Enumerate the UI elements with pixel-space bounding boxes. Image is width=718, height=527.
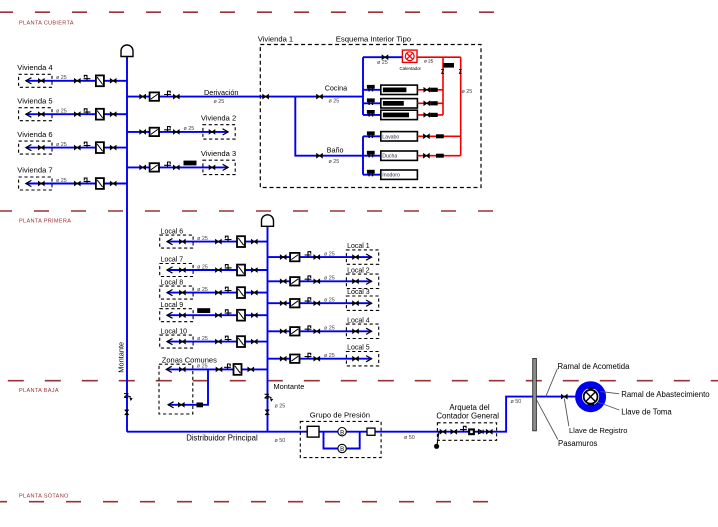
- svg-text:Vivienda 7: Vivienda 7: [17, 166, 52, 175]
- tap Ducha: [367, 151, 375, 158]
- arrow into Local 2: [366, 278, 372, 284]
- wire Local 9 branch: [167, 314, 268, 316]
- drain tap Local 7: [225, 265, 232, 270]
- svg-text:Local 4: Local 4: [347, 317, 370, 324]
- valve 2 Vivienda 4: [74, 79, 80, 83]
- water meter Vivienda 7: [96, 178, 104, 189]
- svg-text:PLANTA PRIMERA: PLANTA PRIMERA: [19, 219, 71, 225]
- valve 1 arqueta: [440, 430, 446, 434]
- svg-text:Zonas Comunes: Zonas Comunes: [162, 356, 217, 365]
- svg-text:Montante: Montante: [274, 382, 305, 391]
- svg-text:Local 1: Local 1: [347, 243, 370, 250]
- valve 1 Vivienda 5: [38, 112, 44, 116]
- drain tap Local 5: [305, 353, 312, 358]
- svg-text:Local 9: Local 9: [161, 302, 184, 309]
- valve 2 Local 4: [314, 329, 320, 333]
- drain tap arqueta: [460, 426, 467, 431]
- wire Local 10 branch: [167, 341, 268, 343]
- svg-text:ø 25: ø 25: [214, 99, 225, 105]
- dashed box Vivienda 4: [19, 74, 52, 87]
- wire distribuidor principal and acometida: [127, 397, 576, 432]
- arrow into Vivienda 5: [26, 111, 32, 117]
- wire zonas comunes loop: [168, 369, 208, 404]
- arrow into Local 5: [366, 356, 372, 362]
- union on hot riser bath: [459, 69, 462, 73]
- dashed box Local 4: [346, 324, 378, 338]
- svg-text:Pasamuros: Pasamuros: [558, 439, 598, 448]
- wire zonas comunes top: [166, 368, 267, 370]
- svg-text:Llave de Toma: Llave de Toma: [621, 407, 672, 416]
- kitchen fixture 1 name blob: [383, 88, 407, 93]
- water meter Local 5: [290, 355, 299, 363]
- dashed box Local 10: [160, 335, 193, 348]
- water meter Local 1: [290, 253, 299, 261]
- wire calentador feed: [363, 56, 402, 58]
- valve 2 Local 2: [314, 279, 320, 283]
- water meter Vivienda 5: [96, 109, 104, 120]
- svg-text:Ramal de Acometida: Ramal de Acometida: [558, 362, 631, 371]
- water meter Local 8: [237, 287, 245, 298]
- wire kitchen fixture 3 cold: [363, 114, 381, 116]
- svg-text:ø 25: ø 25: [56, 178, 67, 184]
- valve 3 Vivienda 6: [110, 146, 116, 150]
- wire kitchen fixture 2 hot: [417, 102, 443, 104]
- water meter derivacion: [150, 92, 159, 100]
- svg-text:ø 25: ø 25: [324, 353, 335, 359]
- svg-text:ø 25: ø 25: [197, 336, 208, 342]
- pump B top: [338, 428, 346, 437]
- svg-text:ø 25: ø 25: [324, 276, 335, 282]
- svg-text:Inodoro: Inodoro: [382, 173, 400, 179]
- zonas comunes group: [159, 356, 268, 415]
- wire Local 8 branch: [167, 292, 268, 294]
- kitchen fixture 2 box: [381, 99, 418, 108]
- valve Ducha hot: [424, 154, 430, 158]
- fitting Ducha hot: [436, 154, 444, 158]
- svg-text:PLANTA BAJA: PLANTA BAJA: [19, 388, 59, 394]
- llave de registro valve: [561, 395, 567, 399]
- arrow zonas comunes top: [166, 366, 172, 372]
- fixture box Inodoro: [381, 170, 418, 179]
- leader llave de toma: [598, 402, 620, 410]
- arrow into Vivienda 7: [26, 180, 32, 186]
- svg-text:ø 25: ø 25: [324, 251, 335, 257]
- wire Local 7 branch: [167, 269, 268, 271]
- arrow into Local 3: [366, 300, 372, 306]
- water meter Vivienda 4: [96, 75, 104, 86]
- dashed box Local 3: [346, 296, 378, 310]
- valve 2 Vivienda 2: [173, 130, 179, 134]
- label blob Local 9: [197, 308, 210, 313]
- arrow into Vivienda 6: [26, 145, 32, 151]
- valve 1 Local 7: [180, 268, 186, 272]
- dashed box Local 5: [346, 352, 378, 366]
- svg-text:Local 8: Local 8: [161, 279, 184, 286]
- dashed box Local 7: [160, 264, 193, 277]
- wire derivacion branch: [127, 96, 260, 98]
- riser 1 montante pipe: [126, 56, 128, 432]
- wire Local 1 branch: [268, 256, 372, 258]
- drain tap Local 3: [305, 298, 312, 303]
- dashed box Local 8: [160, 286, 193, 299]
- svg-text:ø 25: ø 25: [197, 287, 208, 293]
- valve kitchen fixture 1 hot: [424, 88, 430, 92]
- check valve with drain on riser 2: [265, 394, 274, 401]
- svg-text:ø 25: ø 25: [275, 404, 286, 410]
- fitting Lavabo hot: [436, 134, 444, 138]
- water meter Local 9: [237, 310, 245, 321]
- svg-text:ø 25: ø 25: [324, 298, 335, 304]
- wire kitchen fixture 1 cold: [363, 89, 381, 91]
- svg-text:ø 25: ø 25: [197, 364, 208, 370]
- valve kitchen fixture 2 hot: [424, 101, 430, 105]
- tap kitchen fixture 1: [367, 85, 375, 92]
- fixture box Ducha: [381, 151, 418, 160]
- dashed box arqueta: [437, 423, 496, 441]
- check valve with drain on riser 1: [124, 394, 133, 401]
- leader ramal de abastecimiento: [601, 392, 620, 394]
- wire bath feed: [295, 97, 363, 156]
- valve 1 Local 2: [280, 279, 286, 283]
- arrow into Local 4: [366, 328, 372, 334]
- valve 2 Local 8: [216, 291, 222, 295]
- valve 2 Vivienda 3: [173, 165, 179, 169]
- svg-text:Ducha: Ducha: [382, 154, 397, 160]
- wire pump bypass loop: [324, 432, 360, 449]
- wire Vivienda 3 branch: [127, 166, 228, 168]
- dashed box Local 6: [160, 235, 193, 248]
- drain tap Local 9: [225, 310, 232, 315]
- water meter Vivienda 2: [150, 128, 159, 136]
- leader pasamuros: [537, 400, 558, 439]
- valve kitchen fixture 3 hot: [424, 113, 430, 117]
- water meter Local 3: [290, 299, 299, 307]
- svg-text:ø 50: ø 50: [404, 435, 415, 441]
- dashed box Vivienda 3: [203, 160, 235, 174]
- svg-text:Esquema Interior Tipo: Esquema Interior Tipo: [336, 35, 411, 44]
- dashed box Vivienda 7: [19, 177, 52, 190]
- svg-text:ø 25: ø 25: [56, 109, 67, 115]
- svg-text:ø 25: ø 25: [324, 326, 335, 332]
- wire hot riser kitchen: [442, 57, 444, 115]
- valve bano: [317, 154, 323, 158]
- dashed box Vivienda 5: [19, 108, 52, 121]
- valve 2 Local 5: [314, 357, 320, 361]
- drain tap Local 10: [225, 336, 232, 341]
- water meter Local 7: [237, 265, 245, 276]
- svg-text:PLANTA SÓTANO: PLANTA SÓTANO: [19, 492, 69, 499]
- floor line PLANTA CUBIERTA: [0, 11, 511, 13]
- vent dome riser 1: [121, 45, 133, 57]
- arrow into Local 1: [366, 254, 372, 260]
- svg-text:ø 50: ø 50: [511, 399, 522, 405]
- valve 3 Local 8: [251, 291, 257, 295]
- svg-text:Local 5: Local 5: [347, 345, 370, 352]
- svg-text:PLANTA CUBIERTA: PLANTA CUBIERTA: [19, 21, 74, 27]
- valve 3 Local 10: [251, 340, 257, 344]
- valve 3 Vivienda 2: [209, 130, 215, 134]
- svg-text:Vivienda 4: Vivienda 4: [17, 63, 52, 72]
- union on hot riser kitchen: [441, 69, 444, 73]
- valve 3 Local 6: [251, 240, 257, 244]
- drain tap Local 1: [305, 252, 312, 257]
- check valve arqueta: [479, 430, 484, 434]
- valve 3 arqueta: [486, 430, 492, 434]
- wire Local 6 branch: [167, 241, 268, 243]
- drain point dot: [434, 444, 439, 449]
- valve 3 Vivienda 5: [110, 112, 116, 116]
- tap kitchen fixture 2: [367, 98, 375, 105]
- valve 3 Vivienda 3: [209, 165, 215, 169]
- wire Local 2 branch: [268, 280, 372, 282]
- svg-text:Vivienda 6: Vivienda 6: [17, 130, 52, 139]
- drain tap Vivienda 5: [84, 109, 91, 114]
- vent dome riser 2: [262, 215, 274, 226]
- valve 1 Vivienda 6: [38, 146, 44, 150]
- wire Local 5 branch: [268, 358, 372, 360]
- valve 3 Vivienda 7: [110, 181, 116, 185]
- valve 1 Local 4: [280, 329, 286, 333]
- valve 1 Local 10: [180, 340, 186, 344]
- valve 2 Local 3: [314, 301, 320, 305]
- valve 1 derivacion: [140, 95, 146, 99]
- wire esquema entry: [260, 96, 295, 98]
- svg-text:ø 25: ø 25: [56, 142, 67, 148]
- valve on riser 2: [265, 410, 269, 415]
- valve 3 Local 4: [353, 329, 359, 333]
- wire Inodoro cold: [363, 174, 381, 176]
- valve 1 Local 9: [180, 313, 186, 317]
- valve 2 Vivienda 7: [74, 181, 80, 185]
- arqueta del contador general group: [434, 403, 499, 449]
- valve calentador feed: [382, 55, 388, 59]
- valve 1 Local 1: [280, 255, 286, 259]
- svg-text:Local 7: Local 7: [161, 257, 184, 264]
- svg-text:Local 2: Local 2: [347, 267, 370, 274]
- svg-text:Grupo de Presión: Grupo de Presión: [310, 410, 370, 419]
- wire Vivienda 7 branch: [26, 183, 127, 185]
- general water meter (filled): [468, 428, 475, 435]
- svg-text:Distribuidor Principal: Distribuidor Principal: [186, 434, 258, 443]
- svg-text:ø 25: ø 25: [329, 159, 340, 165]
- valve zonas comunes lower: [178, 403, 184, 407]
- valve 1 Vivienda 7: [38, 181, 44, 185]
- wire kitchen fixture 2 cold: [363, 102, 381, 104]
- svg-text:ø 25: ø 25: [197, 236, 208, 242]
- svg-text:ø 25: ø 25: [56, 75, 67, 81]
- valve 3 Local 9: [251, 313, 257, 317]
- drain tap Vivienda 3: [164, 162, 171, 167]
- tap Inodoro: [367, 170, 375, 177]
- arrow into Local 8: [167, 290, 173, 296]
- valve 3 Local 5: [353, 357, 359, 361]
- arrow into Vivienda 4: [26, 78, 32, 84]
- valve 2 Local 6: [216, 240, 222, 244]
- drain tap Local 2: [305, 276, 312, 281]
- valve 1 Local 5: [280, 357, 286, 361]
- valve cocina: [317, 95, 323, 99]
- valve 3 Local 1: [353, 255, 359, 259]
- svg-text:Calentador: Calentador: [400, 66, 422, 71]
- riser 2 montante pipe: [267, 226, 269, 432]
- svg-text:Montante: Montante: [117, 342, 126, 373]
- drain tap Vivienda 7: [84, 178, 91, 183]
- valve 3 Local 7: [251, 268, 257, 272]
- valve 2 Vivienda 5: [74, 112, 80, 116]
- drain tap derivacion: [164, 91, 171, 96]
- fitting kitchen fixture 3 hot: [430, 113, 438, 117]
- valve 2 derivacion: [173, 95, 179, 99]
- svg-text:Local 10: Local 10: [161, 328, 188, 335]
- svg-text:ø 25: ø 25: [184, 126, 195, 132]
- kitchen fixture 2 name blob: [383, 101, 404, 106]
- arrow into Local 10: [167, 339, 173, 345]
- svg-text:Ramal de Abastecimiento: Ramal de Abastecimiento: [621, 390, 710, 399]
- valve 2 Local 10: [216, 340, 222, 344]
- valve 1 Vivienda 4: [38, 79, 44, 83]
- wire Lavabo cold: [363, 135, 381, 137]
- water meter Local 2: [290, 277, 299, 285]
- svg-text:Cocina: Cocina: [325, 84, 347, 93]
- fitting kitchen fixture 1 hot: [430, 88, 438, 92]
- svg-text:ø 25: ø 25: [424, 58, 434, 63]
- valve 2 Vivienda 6: [74, 146, 80, 150]
- arrow into Local 6: [167, 239, 173, 245]
- svg-text:B: B: [340, 430, 344, 436]
- valve Lavabo hot: [424, 134, 430, 138]
- arrow into Local 9: [167, 312, 173, 318]
- wire hot riser bath: [460, 57, 462, 156]
- water meter Vivienda 6: [96, 142, 104, 153]
- grupo de presion group: [300, 410, 381, 457]
- llave de toma (blue ring with valve): [575, 381, 606, 412]
- wire hot outlet: [417, 56, 461, 58]
- water meter Local 4: [290, 327, 299, 335]
- wire kitchen fixture 1 hot: [417, 89, 443, 91]
- wire Vivienda 6 branch: [26, 147, 127, 149]
- wire Ducha cold: [363, 155, 381, 157]
- arrow into Local 7: [167, 267, 173, 273]
- valve 3 Vivienda 4: [110, 79, 116, 83]
- wire Vivienda 4 branch: [26, 80, 127, 82]
- kitchen fixture 1 box: [381, 85, 418, 94]
- pressure tank square: [307, 426, 319, 437]
- arrow zonas comunes lower: [168, 402, 174, 408]
- floor line PLANTA BAJA: [8, 380, 718, 382]
- wire Local 4 branch: [268, 330, 372, 332]
- valve 1 Local 3: [280, 301, 286, 305]
- svg-text:Lavabo: Lavabo: [382, 134, 399, 140]
- valve 1 Local 6: [180, 240, 186, 244]
- arrow into Vivienda 2: [223, 129, 229, 135]
- valve 3 Local 3: [353, 301, 359, 305]
- svg-text:ø 25: ø 25: [197, 264, 208, 270]
- wire kitchen fixture 3 hot: [417, 114, 443, 116]
- wire Local 3 branch: [268, 302, 372, 304]
- kitchen fixture 3 box: [381, 110, 418, 119]
- valve 3 Local 2: [353, 279, 359, 283]
- dashed box Vivienda 2: [203, 125, 235, 139]
- drain tap zonas comunes: [224, 364, 231, 369]
- svg-text:Vivienda 3: Vivienda 3: [201, 149, 236, 158]
- svg-text:B: B: [340, 447, 344, 453]
- wall (pasamuros): [533, 359, 537, 431]
- wire Vivienda 2 branch: [127, 131, 228, 133]
- svg-text:ø 25: ø 25: [462, 89, 473, 95]
- label blob hot pipes: [443, 63, 454, 68]
- floor line PLANTA SOTANO: [0, 501, 505, 503]
- water meter Local 10: [237, 336, 245, 347]
- drain tap Local 8: [225, 287, 232, 292]
- svg-text:ø 25: ø 25: [377, 60, 388, 66]
- valve 1 Local 8: [180, 291, 186, 295]
- valve 2 Local 9: [216, 313, 222, 317]
- dashed box Local 1: [346, 250, 378, 264]
- wire kitchen feed: [295, 96, 363, 98]
- drain tap Vivienda 2: [164, 127, 171, 132]
- svg-text:Local 6: Local 6: [161, 228, 184, 235]
- drain tap Local 4: [305, 326, 312, 331]
- valve 2 Local 1: [314, 255, 320, 259]
- leader llave de registro: [564, 399, 569, 427]
- label blob Vivienda 3: [184, 161, 197, 166]
- wire bath cold riser: [362, 136, 364, 174]
- valve esquema entry: [263, 95, 269, 99]
- dashed box Local 2: [346, 274, 378, 288]
- drain tap Vivienda 6: [84, 142, 91, 147]
- dashed box Local 9: [160, 309, 193, 322]
- valve 1 zonas comunes: [179, 367, 185, 371]
- wire kitchen cold riser: [362, 57, 364, 115]
- calentador (water heater): [402, 50, 417, 62]
- esquema interior tipo group: [258, 35, 481, 188]
- svg-text:Derivación: Derivación: [204, 88, 238, 97]
- svg-text:Baño: Baño: [327, 145, 344, 154]
- svg-text:Contador General: Contador General: [436, 411, 499, 420]
- svg-text:Vivienda 5: Vivienda 5: [17, 96, 52, 105]
- fitting zonas comunes lower: [197, 403, 204, 408]
- arrow into Vivienda 3: [223, 164, 229, 170]
- valve 2 arqueta: [451, 430, 457, 434]
- svg-text:ø 50: ø 50: [275, 438, 286, 444]
- svg-text:Llave de Registro: Llave de Registro: [569, 426, 627, 435]
- drain tap Local 6: [225, 236, 232, 241]
- valve 1 Vivienda 2: [140, 130, 146, 134]
- svg-text:ø 25: ø 25: [329, 99, 340, 105]
- pump B bottom: [338, 444, 346, 453]
- dashed box grupo de presion: [300, 421, 381, 457]
- valve on riser 1: [125, 410, 129, 415]
- wire arqueta drain: [437, 432, 439, 446]
- dashed box Vivienda 6: [19, 141, 52, 154]
- fitting kitchen fixture 2 hot: [430, 101, 438, 105]
- wire Ducha hot: [417, 155, 460, 157]
- water meter zonas comunes: [234, 364, 242, 375]
- wire Lavabo hot: [417, 135, 460, 137]
- dashed box Zonas Comunes: [159, 364, 193, 414]
- svg-text:Local 3: Local 3: [347, 289, 370, 296]
- valve 2 zonas comunes: [216, 367, 222, 371]
- valve 1 Vivienda 3: [140, 165, 146, 169]
- leader ramal de acometida: [546, 369, 558, 397]
- water meter Local 6: [237, 236, 245, 247]
- dashed box esquema interior tipo: [260, 45, 481, 188]
- water meter Vivienda 3: [150, 163, 159, 171]
- svg-text:Vivienda 1: Vivienda 1: [258, 35, 293, 44]
- wire Vivienda 5 branch: [26, 113, 127, 115]
- valve 2 Local 7: [216, 268, 222, 272]
- kitchen fixture 3 name blob: [383, 113, 409, 118]
